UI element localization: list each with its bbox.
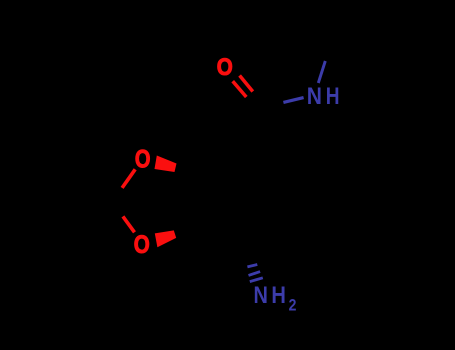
svg-text:H: H xyxy=(271,283,286,309)
svg-text:O: O xyxy=(135,145,151,173)
wire C=O double bond line b xyxy=(233,81,247,97)
wire C=O double bond line a xyxy=(240,76,253,92)
svg-text:N: N xyxy=(254,283,268,309)
hashed wedge dash 1 (top) to C4 xyxy=(247,265,257,267)
wire acetal C to O3 bond (red half) xyxy=(123,216,135,232)
svg-text:O: O xyxy=(217,54,233,81)
hashed wedge dash 3 (bottom) xyxy=(250,278,263,282)
wire C-N amide bond (blue half) xyxy=(283,98,303,103)
svg-text:N: N xyxy=(307,84,322,110)
svg-text:H: H xyxy=(326,84,340,110)
wire N-methyl bond stub (blue half) xyxy=(318,61,325,83)
svg-text:O: O xyxy=(134,231,150,259)
wedge bond O2 to ring carbon C3a (red half, filled) xyxy=(155,156,177,173)
svg-text:2: 2 xyxy=(289,297,297,315)
hashed wedge dash 2 xyxy=(249,272,261,276)
wire acetal C to O2 bond (red half) xyxy=(122,169,135,188)
wedge bond O3 to ring carbon C6a (red half, filled) xyxy=(155,230,176,247)
